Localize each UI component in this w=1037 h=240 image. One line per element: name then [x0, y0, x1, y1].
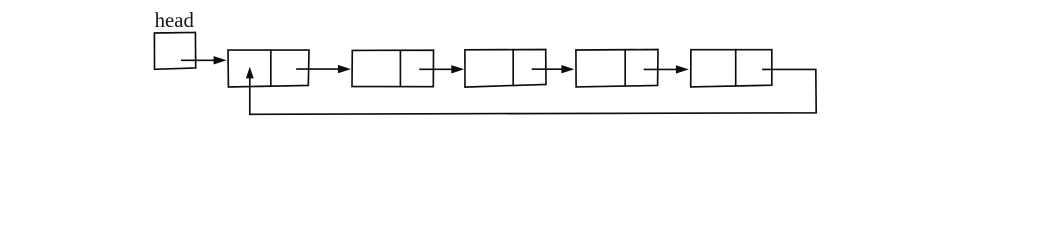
arrowhead head to node1 [214, 56, 227, 64]
wire node2 next shaft [420, 68, 452, 70]
node 5 divider [735, 50, 737, 86]
node 3 box [465, 50, 546, 88]
wire head arrow shaft [182, 59, 215, 61]
arrowhead node4 to node5 [676, 65, 689, 73]
wire node3 next shaft [533, 68, 563, 70]
arrowhead loop into node1 [246, 67, 254, 79]
node 2 divider [399, 50, 401, 86]
node 5 box [691, 50, 772, 87]
svg-text:head: head [155, 9, 195, 32]
node 2 box [352, 50, 434, 86]
wire loop back from node5 to node1 [250, 69, 816, 114]
head pointer box [154, 32, 195, 69]
wire node1 next shaft [297, 68, 340, 70]
node 4 box [576, 50, 658, 87]
arrowhead node1 to node2 [338, 65, 351, 73]
node 1 divider [270, 50, 272, 86]
node 3 divider [512, 50, 514, 86]
node 4 divider [624, 50, 626, 86]
node 1 box [228, 50, 309, 87]
arrowhead node3 to node4 [561, 65, 574, 73]
arrowhead node2 to node3 [451, 65, 464, 73]
wire node4 next shaft [645, 68, 678, 70]
